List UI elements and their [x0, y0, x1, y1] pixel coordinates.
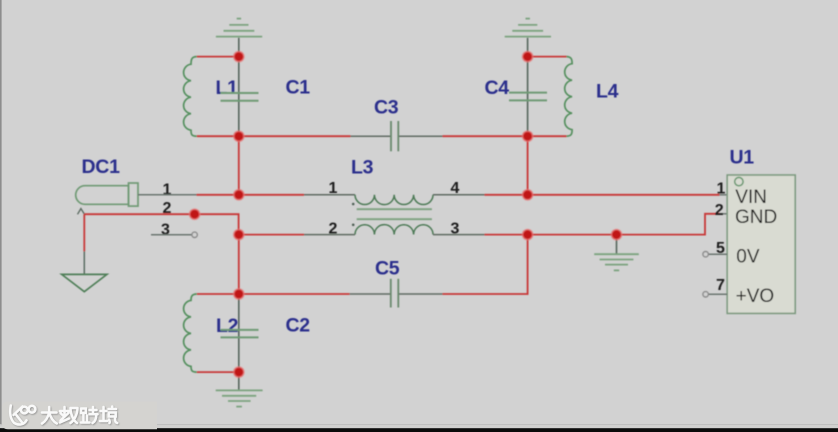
ground GND2 (top-right, inverted earth above C4/L4) [505, 19, 551, 37]
connector DC1 barrel jack [76, 156, 172, 239]
跨 [81, 407, 98, 423]
node D junction (top right) [523, 52, 533, 62]
svg-text:1: 1 [329, 180, 338, 197]
logo [10, 406, 26, 425]
node B2 junction (pin1 row) [234, 190, 244, 200]
node B junction [234, 131, 244, 141]
svg-text:1: 1 [163, 181, 172, 198]
wire (gnd stub at mid junction) [616, 235, 618, 254]
secondary winding [355, 225, 433, 235]
svg-text:C1: C1 [286, 76, 311, 98]
svg-text:C3: C3 [374, 97, 399, 119]
capacitor C4 [485, 57, 548, 137]
pin 7 lead [708, 293, 727, 295]
capacitor C1 [221, 57, 311, 137]
wire (node E row y294: L2 top stub, to C5) [197, 293, 443, 295]
wire (DC1 pin2 net: from sleeve corner right to corner, down to node C) [84, 214, 238, 234]
node D3 junction (pin4 row) [523, 190, 533, 200]
watermark badge card [2, 402, 157, 430]
wire (right column: L3 pin3 node down, corner to C5 row) [443, 235, 528, 294]
wire (right column vertical: node D2 down to L3 pin4 node) [527, 136, 529, 195]
svg-text:U1: U1 [730, 146, 755, 168]
svg-text:DC1: DC1 [82, 156, 121, 178]
node C0 junction (pin2) [190, 209, 200, 219]
wire (node A row: L1 top to junction) [197, 56, 239, 58]
wire (node C down to node E) [238, 235, 240, 294]
node C junction [234, 230, 244, 240]
watermark 大数跨境 [10, 406, 117, 425]
svg-text:+VO: +VO [736, 286, 775, 307]
ground GND1 (top-left, inverted earth above L1/C1) [216, 19, 262, 37]
svg-text:1: 1 [717, 180, 726, 197]
node G junction (gnd tap) [612, 230, 622, 240]
wire (stub from GND2 down to node D) [527, 38, 529, 57]
wire (L3 pin3 lead) [433, 234, 485, 236]
svg-text:GND: GND [735, 207, 777, 228]
wire (node D row: junction to L4 top) [528, 56, 567, 58]
ground GND5 (below L2/C2) [216, 390, 263, 406]
node E junction [234, 289, 244, 299]
inductor L1 [184, 57, 239, 137]
wire (node F row y372: L2 bottom to junction) [197, 371, 239, 373]
node D2 junction [523, 131, 533, 141]
wire (sleeve drop to ground) [83, 214, 85, 251]
svg-text:L2: L2 [216, 315, 239, 337]
capacitor C3 [374, 97, 399, 152]
wire (net B horizontal y136: L1 bottom to C3, C3 to C4 node, to L4 bottom) [197, 135, 567, 137]
svg-text:0V: 0V [736, 247, 760, 268]
wire (L3 pin2 lead) [304, 234, 355, 236]
svg-text:3: 3 [161, 222, 170, 239]
svg-text:VIN: VIN [735, 187, 767, 208]
wire (L3 pin3 to gnd junction to U1 pin2 riser) [485, 214, 720, 235]
svg-text:L1: L1 [216, 77, 239, 99]
wire (stub from GND1 down to node A) [238, 38, 240, 57]
inductor L2 [184, 294, 239, 372]
svg-text:C5: C5 [375, 258, 400, 280]
pin 5 lead [708, 253, 727, 255]
svg-text:C2: C2 [286, 314, 311, 336]
svg-text:C4: C4 [485, 77, 510, 99]
wire (L3 pin1 lead) [304, 194, 355, 196]
DC1 sleeve arrow [78, 209, 85, 215]
svg-text:2: 2 [715, 202, 724, 219]
wire (DC1 pin1 red to junction, and on to L3 pin1) [197, 194, 305, 196]
capacitor C2 [221, 294, 311, 372]
svg-text:L4: L4 [596, 80, 619, 102]
wire (L3 pin4 lead) [433, 194, 485, 196]
wire (net C: node C to L3 pin2 lead) [239, 234, 304, 236]
node (DC1 pin3 open circle) [192, 232, 197, 237]
node A junction [234, 52, 244, 62]
大 [42, 407, 57, 424]
ground GND4 (below pin2/3 net) [594, 254, 639, 270]
ground GND3 (triangle under DC1) [62, 274, 107, 291]
transformer L3 [329, 156, 460, 237]
wire (gnd stub below C2) [238, 372, 240, 390]
bottom overlay strip [0, 424, 838, 425]
left screen edge [0, 0, 2, 432]
node F junction [234, 367, 244, 377]
wire (net B vertical: node B down to DC1 pin1 node) [238, 136, 240, 195]
wire (U1 pin1 lead) [720, 194, 728, 196]
wire (L3 pin4 to node D2 and to U1 pin1) [485, 194, 720, 196]
wire (DC1 pin3 stub) [151, 234, 192, 236]
数 [60, 407, 78, 423]
pin1 indicator [735, 177, 743, 185]
svg-text:7: 7 [716, 277, 725, 294]
core [357, 208, 432, 210]
bottom black bar [0, 428, 838, 432]
境 [100, 407, 117, 424]
svg-text:L3: L3 [351, 156, 374, 178]
wire (U1 pin2 lead) [720, 213, 728, 215]
primary winding [355, 195, 433, 205]
node D4 junction (pin3 row) [523, 230, 533, 240]
capacitor C5 [375, 258, 400, 308]
phase dot primary [352, 203, 355, 206]
inductor L4 [565, 57, 619, 137]
phase dot secondary [352, 224, 355, 227]
wire (DC1 pin1 lead) [138, 194, 197, 196]
IC U1 [703, 146, 795, 313]
